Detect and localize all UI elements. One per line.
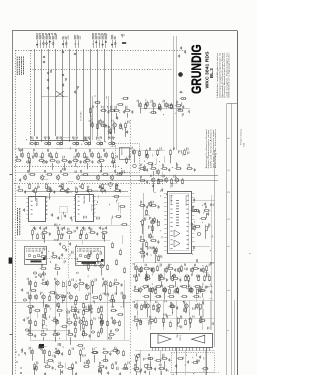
svg-text:C: C (228, 169, 231, 171)
svg-text:Printed in Germany: Printed in Germany (240, 129, 243, 145)
svg-text:TDA 4100: TDA 4100 (35, 198, 38, 206)
svg-text:C 2: C 2 (88, 275, 90, 278)
svg-text:UKW-Betrieb ohne Signal gemess: UKW-Betrieb ohne Signal gemessen (228, 53, 231, 98)
svg-text:ZF 10.7 MHz: ZF 10.7 MHz (81, 111, 83, 120)
svg-text:D: D (228, 218, 231, 220)
svg-text:TDA 1046: TDA 1046 (83, 196, 86, 204)
svg-text:1553 Q: 1553 Q (180, 334, 182, 340)
svg-text:SOUND PROC: SOUND PROC (186, 194, 188, 206)
svg-text:D: D (228, 191, 231, 193)
svg-text:8 08: 8 08 (243, 143, 245, 147)
svg-text:C 1: C 1 (44, 277, 46, 280)
svg-text:BL.3: BL.3 (209, 68, 214, 78)
svg-text:GRUNDIG: GRUNDIG (188, 44, 204, 94)
